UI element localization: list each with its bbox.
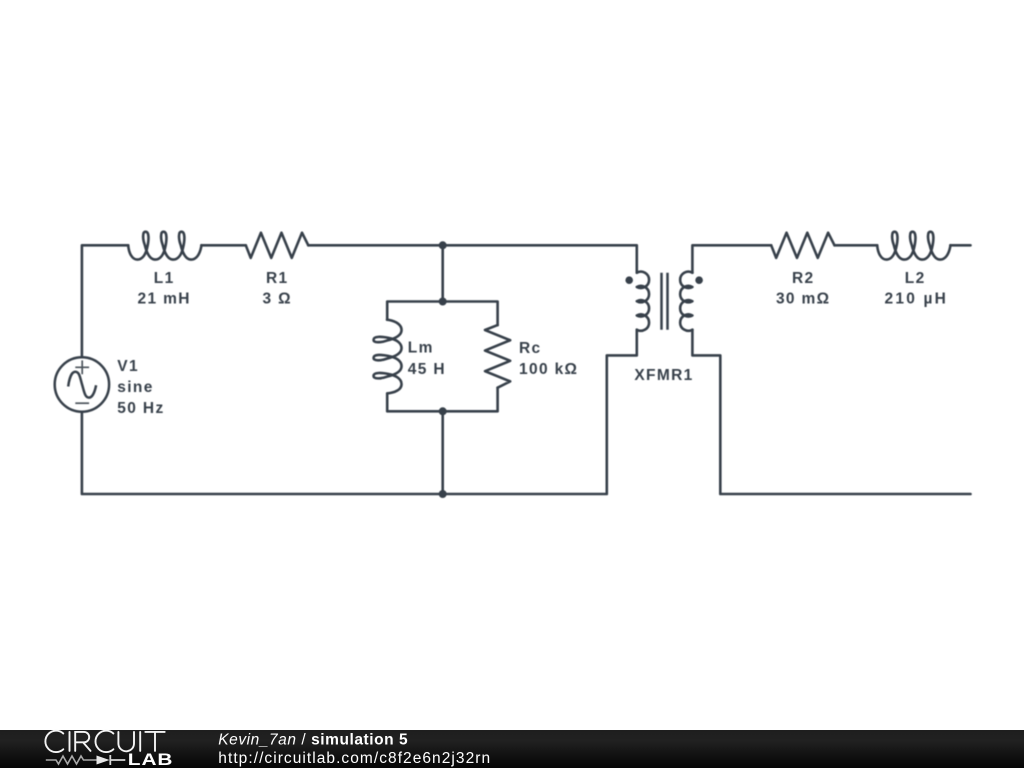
inductor Lm (vertical, in box left edge): [374, 320, 402, 394]
polarity dot primary: [625, 276, 633, 284]
footer bar: [0, 730, 1024, 768]
wire: box bottom edge: [387, 388, 497, 412]
svg-text:LAB: LAB: [128, 750, 174, 768]
transformer XFMR1 primary coil: [637, 272, 649, 331]
V1 plus sign: [75, 360, 89, 374]
resistor R1: [246, 233, 308, 258]
inductor L2: [877, 232, 950, 260]
wire R1 to transformer primary top: [308, 245, 637, 272]
wire: transformer secondary bottom to rail stub: [692, 330, 970, 494]
inductor L1: [128, 232, 201, 260]
wire top-left: V1 to L1: [82, 245, 128, 356]
svg-text:Kevin_7an / simulation 5: Kevin_7an / simulation 5: [218, 732, 408, 749]
voltage source V1: [55, 357, 109, 411]
logo resistor-diode symbol: [46, 756, 97, 764]
junction node bottom rail: [439, 490, 447, 498]
V1 sine glyph: [68, 372, 96, 398]
wire L2 stub right: [950, 244, 970, 247]
wire: box bottom to bottom rail: [441, 411, 444, 494]
wire: bottom rail and V1 bottom: [82, 330, 637, 494]
wire node to parallel box top: [441, 245, 444, 301]
transformer XFMR1 secondary coil: [680, 272, 692, 331]
wire R2 to L2: [835, 244, 878, 247]
wire L1 to R1: [201, 244, 245, 247]
junction node box bottom: [439, 407, 447, 415]
resistor Rc (vertical, in box right edge): [485, 325, 510, 388]
polarity dot secondary: [695, 276, 703, 284]
junction node top rail: [439, 241, 447, 249]
junction node box top: [439, 298, 447, 306]
wire: box top edge: [387, 302, 497, 326]
transformer core lines: [662, 273, 668, 330]
V1 minus sign: [75, 402, 89, 404]
wire: secondary top to R2: [692, 245, 771, 272]
CircuitLab logo: CIRCUIT wordmark: [45, 731, 164, 752]
svg-text:http://circuitlab.com/c8f2e6n2: http://circuitlab.com/c8f2e6n2j32rn: [218, 750, 491, 767]
resistor R2: [771, 233, 834, 258]
